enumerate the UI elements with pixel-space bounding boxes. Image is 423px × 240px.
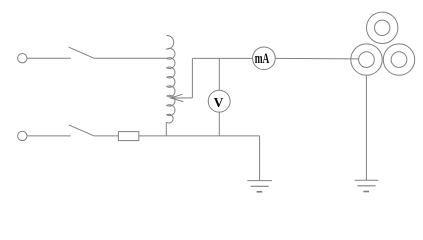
wire (94, 57, 167, 59)
wire (mA to test object) (275, 57, 358, 60)
svg-text:V: V (214, 95, 224, 110)
wire (coil bottom lead) (165, 122, 167, 136)
wire (drop to ground) (259, 136, 261, 181)
test object bottom-left circle (351, 44, 382, 75)
terminal X2 (bottom-left input) (18, 131, 27, 140)
switch S1 (69, 47, 94, 58)
wire (V-meter drop from node) (218, 58, 220, 90)
milliammeter PA (mA) (253, 47, 276, 70)
wire (27, 135, 71, 137)
ground (center) (247, 181, 272, 192)
wire (94, 135, 119, 137)
test object (three-core bushing) top circle (367, 12, 398, 43)
wire (tap riser) (191, 58, 193, 98)
terminal X1 (top-left input) (18, 54, 27, 63)
wire (V-meter to bottom bus) (218, 112, 220, 136)
transformer T1 winding (variac coil) (166, 36, 175, 123)
resistor R1 (118, 132, 138, 141)
wire (27, 57, 71, 59)
test object bottom-right circle (383, 44, 414, 75)
ground (right) (355, 180, 379, 191)
wire (bottom bus) (139, 135, 260, 137)
svg-text:mA: mA (255, 51, 270, 67)
voltmeter PV (V) (208, 90, 230, 112)
variac tap arrow (171, 94, 193, 101)
wire (test object to ground) (365, 75, 367, 180)
switch S2 (69, 125, 94, 136)
wire (top bus to mA) (192, 57, 252, 59)
